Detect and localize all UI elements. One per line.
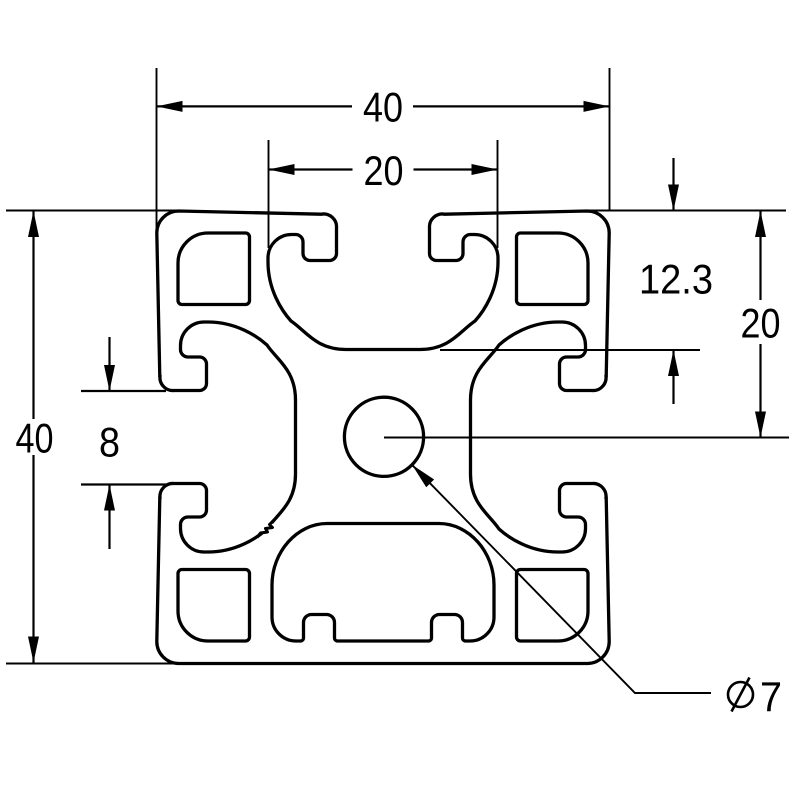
right T-slot cavity — [471, 322, 607, 552]
leader for core hole — [412, 465, 711, 693]
bottom closed-side cavity — [272, 524, 494, 642]
svg-text:20: 20 — [364, 147, 404, 194]
seam mark — [261, 522, 275, 536]
svg-text:7: 7 — [760, 673, 782, 720]
top T-slot cavity — [268, 214, 498, 350]
corner cavity top-left — [178, 233, 250, 305]
extension lines dim 20 top — [268, 140, 270, 248]
svg-text:12.3: 12.3 — [639, 255, 713, 302]
svg-text:8: 8 — [99, 418, 120, 465]
extension lines dim 40 top — [156, 68, 158, 232]
center line — [384, 437, 789, 439]
dim line 40 top — [157, 105, 353, 107]
extension line bottom face left — [6, 663, 180, 665]
dim line 20 right — [759, 211, 761, 300]
svg-text:40: 40 — [363, 84, 403, 131]
dim line 20 top — [269, 168, 353, 170]
slot depth line 12.3 — [440, 349, 700, 351]
extrusion outer boundary — [157, 211, 321, 377]
svg-text:40: 40 — [16, 414, 54, 461]
left T-slot cavity — [160, 322, 296, 552]
corner cavity top-right — [517, 233, 589, 305]
diameter symbol — [728, 682, 753, 707]
corner cavity bottom-left — [178, 570, 250, 642]
extension line top face right — [586, 210, 786, 212]
svg-text:20: 20 — [741, 299, 781, 346]
extension line top face left — [6, 210, 180, 212]
dim 8 lines — [81, 390, 166, 392]
dim line 40 left — [32, 211, 34, 419]
corner cavity bottom-right — [517, 570, 589, 642]
center core hole — [344, 397, 423, 476]
